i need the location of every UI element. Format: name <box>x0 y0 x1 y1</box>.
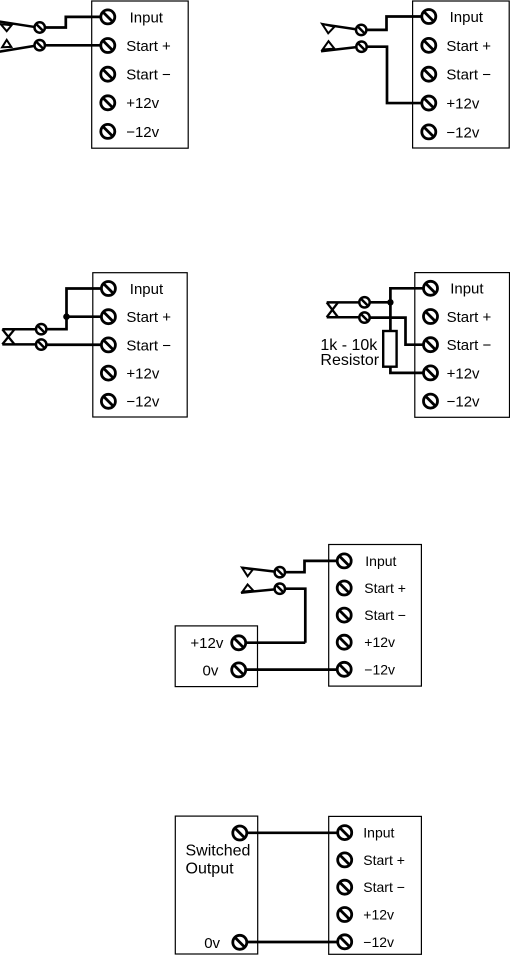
jack P2 sleeve conductor lead <box>321 47 358 51</box>
jack P1 tip screw contact <box>35 22 45 32</box>
svg-text:−12v: −12v <box>447 394 480 411</box>
terminal TB4-2 "Start +" <box>424 309 492 326</box>
jack P1 tip conductor lead <box>0 21 36 27</box>
svg-text:−12v: −12v <box>446 124 479 141</box>
terminal TB5-5 "−12v" <box>337 661 395 677</box>
terminal TB5-2 "Start +" <box>337 580 406 596</box>
jack P3 tip screw contact <box>275 567 285 577</box>
terminal PS1 0v <box>232 663 246 677</box>
link X1 bottom screw contact <box>36 339 46 349</box>
svg-text:+12v: +12v <box>126 95 159 112</box>
terminal TB2-2 "Start +" <box>422 38 491 55</box>
svg-text:0v: 0v <box>203 662 219 679</box>
jack P2 sleeve arrow <box>323 41 335 49</box>
svg-text:Output: Output <box>186 861 235 878</box>
shorting link X2 bottom conductor <box>327 316 360 319</box>
wire D3 junction to Start+ <box>67 315 109 318</box>
terminal block TB1 outline <box>92 1 189 148</box>
terminal TB1-2 "Start +" <box>101 38 171 55</box>
svg-text:Input: Input <box>450 9 484 26</box>
jack P2 tip screw contact <box>356 25 366 35</box>
diagram 3: shorted plug to Input/Start+/Start- <box>2 273 187 417</box>
shorting link X1 top conductor <box>2 328 36 331</box>
wire D6 switched output to Input <box>240 831 345 834</box>
resistor R1 body <box>383 331 396 367</box>
svg-text:Start +: Start + <box>126 38 171 55</box>
svg-text:Input: Input <box>363 825 394 841</box>
wire D3 bottom contact to Start- <box>41 343 108 346</box>
wire D5 supply 0v to -12v <box>239 668 345 671</box>
wire D4 junction through resistor to +12v <box>390 302 430 373</box>
svg-text:−12v: −12v <box>364 661 395 677</box>
terminal TB2-3 "Start −" <box>422 67 491 84</box>
svg-text:Start +: Start + <box>446 38 491 55</box>
shorting link X2 top conductor <box>327 301 360 304</box>
diagram 4: shorted plug with pull-up resistor <box>320 273 509 418</box>
svg-text:+12v: +12v <box>447 365 480 382</box>
svg-text:−12v: −12v <box>126 124 159 141</box>
svg-text:Start −: Start − <box>363 879 405 895</box>
terminal TB2-4 "+12v" <box>422 96 480 113</box>
link X2 top screw contact <box>359 297 369 307</box>
svg-text:Start +: Start + <box>363 852 405 868</box>
svg-text:Start −: Start − <box>126 337 171 354</box>
svg-text:0v: 0v <box>204 935 220 952</box>
shorting link X1 diagonal b <box>2 329 14 344</box>
terminal SW1 0v <box>233 935 247 949</box>
terminal TB4-1 "Input" <box>424 281 485 298</box>
wire D4 bottom contact to Start- <box>365 318 431 345</box>
power supply box PS1 outline <box>175 626 257 687</box>
wire D1 tip contact to Input <box>40 17 108 28</box>
terminal TB3-3 "Start −" <box>101 337 171 354</box>
wire D1 ring contact to Start+ <box>40 44 108 47</box>
svg-text:Start −: Start − <box>446 67 491 84</box>
terminal TB5-4 "+12v" <box>337 634 395 650</box>
terminal TB1-5 "−12v" <box>101 124 160 141</box>
jack P3 tip arrow <box>242 568 253 577</box>
svg-text:+12v: +12v <box>446 96 479 113</box>
terminal TB6-3 "Start −" <box>338 879 405 895</box>
shorting link X2 diagonal a <box>327 302 338 317</box>
jack P1 sleeve screw contact <box>35 40 45 50</box>
jack P3 sleeve screw contact <box>275 584 285 594</box>
jack P1 sleeve arrow <box>2 40 11 47</box>
svg-text:Input: Input <box>365 553 396 569</box>
svg-text:Start +: Start + <box>364 580 406 596</box>
wire D2 sleeve contact to +12v <box>362 47 429 103</box>
terminal TB6-1 "Input" <box>338 825 395 841</box>
svg-text:Start +: Start + <box>447 309 492 326</box>
diagram 5: external +12v supply through footswitch <box>175 545 421 687</box>
junction node D4 <box>387 299 393 305</box>
wire D5 supply +12v feed <box>239 641 306 644</box>
terminal block TB4 outline <box>415 273 510 418</box>
terminal TB2-1 "Input" <box>422 9 484 26</box>
svg-text:+12v: +12v <box>363 907 394 923</box>
wire D5 tip contact to Input <box>280 561 344 572</box>
terminal TB6-4 "+12v" <box>338 907 394 923</box>
wire D6 0v to -12v <box>240 941 345 944</box>
wire D3 top contact to Input <box>41 289 108 330</box>
terminal block TB5 outline <box>329 545 422 687</box>
svg-text:Input: Input <box>130 281 164 298</box>
terminal TB3-2 "Start +" <box>101 309 171 326</box>
diagram 2: footswitch jack to Input/+12v <box>321 1 509 148</box>
svg-text:Switched: Switched <box>186 843 251 860</box>
terminal block TB3 outline <box>93 273 187 417</box>
terminal SW1 switched output <box>233 826 247 840</box>
svg-text:Start −: Start − <box>126 67 171 84</box>
terminal block TB6 outline <box>329 816 422 954</box>
jack P1 sleeve conductor lead <box>0 46 36 52</box>
jack P3 tip conductor lead <box>242 568 276 572</box>
terminal TB3-1 "Input" <box>101 281 164 298</box>
wire D5 sleeve contact down to +12v feed <box>280 589 306 643</box>
terminal block TB2 outline <box>413 1 510 148</box>
link X1 top screw contact <box>36 324 46 334</box>
svg-text:+12v: +12v <box>364 634 395 650</box>
svg-text:Start −: Start − <box>364 607 406 623</box>
shorting link X1 bottom conductor <box>2 343 36 346</box>
svg-text:+12v: +12v <box>126 366 159 383</box>
terminal TB3-5 "−12v" <box>101 394 159 411</box>
terminal TB6-2 "Start +" <box>338 852 405 868</box>
wire D4 junction to Input <box>390 288 430 302</box>
jack P2 sleeve screw contact <box>356 42 366 52</box>
terminal TB1-4 "+12v" <box>101 95 160 112</box>
terminal TB4-3 "Start −" <box>424 337 492 354</box>
terminal TB3-4 "+12v" <box>101 366 159 383</box>
svg-text:Input: Input <box>130 9 164 26</box>
terminal TB1-1 "Input" <box>101 9 164 26</box>
svg-text:+12v: +12v <box>190 635 223 652</box>
svg-text:−12v: −12v <box>363 934 394 950</box>
jack P2 tip arrow <box>322 24 334 33</box>
jack P1 tip arrow <box>1 24 12 31</box>
wire D2 tip contact to Input <box>361 17 429 30</box>
link X2 bottom screw contact <box>359 312 369 322</box>
terminal TB4-5 "−12v" <box>424 394 481 411</box>
jack P3 sleeve arrow <box>243 585 254 592</box>
svg-text:Resistor: Resistor <box>320 352 379 369</box>
shorting link X1 diagonal a <box>2 329 14 344</box>
svg-text:−12v: −12v <box>126 394 159 411</box>
svg-text:Start −: Start − <box>447 337 492 354</box>
junction node D3 (Input to Start+) <box>63 313 70 320</box>
diagram 6: switched output to Input, 0v to -12v <box>175 816 421 954</box>
switched output box SW1 outline <box>175 816 257 954</box>
terminal PS1 +12v <box>232 636 246 650</box>
jack P3 sleeve conductor lead <box>241 589 276 593</box>
svg-text:Start +: Start + <box>126 309 171 326</box>
wire D4 top contact to junction <box>365 301 391 304</box>
shorting link X2 diagonal b <box>327 302 338 317</box>
jack P2 tip conductor lead <box>322 24 357 29</box>
terminal TB5-1 "Input" <box>337 553 396 569</box>
terminal TB6-5 "−12v" <box>338 934 394 950</box>
terminal TB2-5 "−12v" <box>422 124 480 141</box>
svg-text:Input: Input <box>450 281 484 298</box>
terminal TB5-3 "Start −" <box>337 607 406 623</box>
terminal TB1-3 "Start −" <box>101 67 171 84</box>
diagram 1: footswitch jack to Input/Start+ <box>0 1 188 148</box>
terminal TB4-4 "+12v" <box>424 365 481 382</box>
